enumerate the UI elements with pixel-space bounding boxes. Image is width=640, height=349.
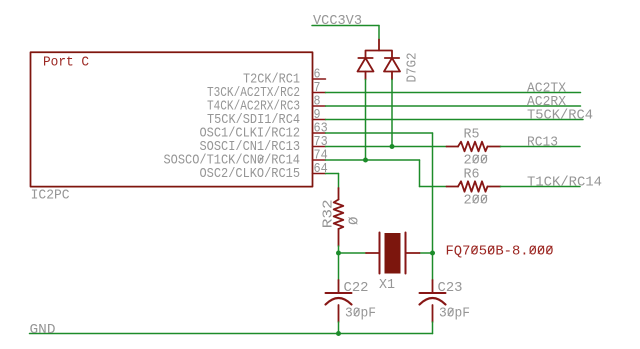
capacitor C23 top plate [420, 292, 446, 294]
svg-text:C22: C22 [344, 280, 369, 296]
wire pin74 vertical [419, 160, 421, 187]
svg-text:T5CK/RC4: T5CK/RC4 [527, 108, 593, 124]
svg-text:R6: R6 [464, 166, 480, 182]
wire pin64 horizontal [326, 173, 339, 175]
wire T1CK/RC14 [501, 186, 581, 188]
svg-text:IC2PC: IC2PC [31, 188, 70, 204]
wire pin74 to R6 [420, 186, 447, 188]
wire VCC3V3 horizontal [312, 25, 379, 27]
resistor R6 [447, 186, 459, 188]
crystal X1 body [385, 233, 401, 274]
slashed-zero mark for 30pF (C23) [448, 309, 453, 316]
svg-text:FQ7050B-8.000: FQ7050B-8.000 [446, 243, 554, 259]
wire pin63 vertical down to crystal right [432, 133, 434, 280]
pin 64 stub [313, 173, 326, 175]
wire pin7 AC2TX [326, 92, 581, 94]
junction dot crystal right [430, 251, 435, 256]
crystal X1 left plate [379, 233, 381, 274]
wire C22 to GND rail [338, 322, 340, 334]
svg-text:Port C: Port C [43, 55, 89, 71]
wire GND rail [30, 333, 433, 335]
wire R32 to crystal junction [338, 246, 340, 280]
wire crystal right [420, 252, 433, 254]
diode D7G2 top lead [378, 40, 380, 51]
pin 8 stub [313, 105, 326, 107]
svg-text:200: 200 [464, 193, 489, 209]
svg-text:R32: R32 [321, 199, 337, 228]
diode D7G2 right lead [391, 72, 393, 80]
wire pin74 horizontal [326, 159, 420, 161]
slashed-zero marks for 200 (R6) [473, 195, 487, 202]
wire pin63 horizontal [326, 132, 433, 134]
capacitor C23 top lead [432, 280, 434, 293]
IC2PC Port C box outline [31, 52, 313, 186]
junction dot GND rail / C22 [336, 331, 341, 336]
pin 7 stub [313, 92, 326, 94]
svg-text:OSC2/CLKO/RC15: OSC2/CLKO/RC15 [200, 166, 301, 182]
svg-text:GND: GND [30, 322, 56, 338]
junction dot pin73 / right diode [390, 144, 395, 149]
pin 6 stub [313, 78, 326, 80]
wire C23 to GND rail [432, 322, 434, 334]
diode D7G2 left triangle [358, 58, 374, 72]
wire RC13 [501, 146, 581, 148]
resistor R32 [338, 188, 340, 200]
capacitor C22 bottom lead [338, 305, 340, 322]
svg-text:VCC3V3: VCC3V3 [313, 13, 362, 29]
slashed-zero mark for CN0 [258, 156, 263, 162]
capacitor C23 bottom plate arc [420, 298, 446, 305]
svg-text:R5: R5 [464, 126, 480, 142]
crystal X1 left lead [366, 252, 380, 254]
svg-text:Ø: Ø [347, 217, 363, 225]
wire crystal left [339, 252, 367, 254]
resistor R5 [447, 146, 459, 148]
svg-text:T1CK/RC14: T1CK/RC14 [527, 175, 602, 191]
crystal X1 right lead [406, 252, 420, 254]
diode D7G2 right cathode bar [385, 57, 399, 59]
wire VCC3V3 vertical [378, 26, 380, 40]
slashed-zero marks for FQ7050B-8.000 [472, 246, 552, 253]
pin 63 stub [313, 132, 326, 134]
svg-text:64: 64 [314, 161, 328, 177]
pin 73 stub [313, 146, 326, 148]
wire pin8 AC2RX [326, 105, 581, 107]
pin 74 stub [313, 159, 326, 161]
svg-text:D7G2: D7G2 [404, 53, 420, 83]
capacitor C22 top lead [338, 280, 340, 293]
svg-text:RC13: RC13 [527, 135, 558, 151]
wire right diode vertical [391, 80, 393, 147]
diode D7G2 left lead [365, 72, 367, 80]
capacitor C22 top plate [326, 292, 352, 294]
junction dot pin74 / left diode [363, 158, 368, 163]
diode D7G2 right triangle [384, 58, 400, 72]
pin 9 stub [313, 119, 326, 121]
wire pin64 vertical [338, 174, 340, 189]
capacitor C22 bottom plate arc [326, 298, 352, 305]
svg-text:C23: C23 [438, 280, 463, 296]
crystal X1 right plate [405, 233, 407, 274]
svg-text:30pF: 30pF [439, 306, 470, 322]
wire pin9 T5CK/RC4 [326, 119, 584, 121]
capacitor C23 bottom lead [432, 305, 434, 322]
slashed-zero mark for 30pF (C22) [354, 309, 359, 316]
junction dot crystal left [336, 251, 341, 256]
wire pin73 horizontal [326, 146, 447, 148]
diode D7G2 top bar [366, 51, 393, 59]
svg-text:X1: X1 [379, 277, 395, 293]
diode D7G2 left cathode bar [358, 57, 372, 59]
slashed-zero marks for 200 (R5) [473, 155, 487, 162]
svg-text:30pF: 30pF [345, 306, 376, 322]
wire left diode vertical [365, 80, 367, 161]
